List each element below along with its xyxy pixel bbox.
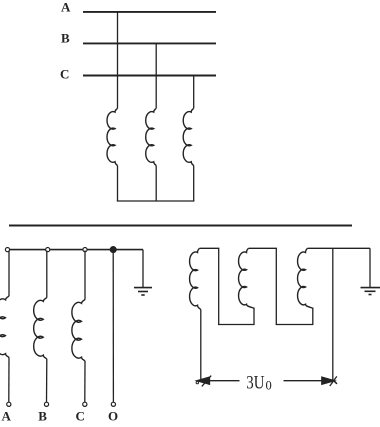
- svg-text:3U: 3U: [246, 373, 264, 394]
- wire ground drop: [142, 250, 144, 287]
- wire top link winding 3 to ground branch: [308, 247, 371, 249]
- terminal A output (open circle): [7, 402, 11, 406]
- wire phase a secondary bottom lead: [8, 358, 10, 403]
- wire top link winding 1 to first down-leg: [200, 248, 219, 324]
- wire winding 2 bottom lead: [155, 166, 157, 201]
- secondary winding phase a: [0, 296, 9, 358]
- open-delta winding 2: [239, 248, 254, 308]
- wire secondary star bus: [7, 249, 143, 251]
- arrowhead right: [322, 376, 337, 386]
- open-delta winding 1: [190, 248, 201, 309]
- wire phase A bus: [83, 11, 216, 13]
- wire measurement left drop: [200, 310, 202, 382]
- svg-text:B: B: [61, 30, 70, 45]
- wire phase b secondary bottom lead: [46, 359, 48, 402]
- terminal a (open circle): [5, 248, 9, 252]
- dimension arrow left segment: [204, 380, 240, 382]
- terminal C output (open circle): [83, 402, 87, 406]
- terminal B output (open circle): [44, 402, 48, 406]
- terminal O output (open circle): [111, 402, 115, 406]
- svg-text:0: 0: [266, 378, 272, 392]
- wire phase a secondary top lead: [8, 251, 10, 297]
- svg-text:A: A: [2, 409, 12, 424]
- wire phase C bus: [83, 75, 216, 77]
- wire tap from phase C to primary winding 3: [193, 76, 195, 109]
- wire phase c secondary top lead: [84, 251, 86, 300]
- wire bottom link to winding 3: [276, 308, 313, 325]
- ground symbol (right): [361, 288, 380, 295]
- section divider line: [9, 225, 352, 227]
- secondary winding phase c: [72, 300, 85, 362]
- terminal c (open circle): [83, 248, 87, 252]
- open-delta winding 3: [298, 248, 313, 308]
- wire winding 1 bottom lead: [117, 166, 119, 201]
- ground symbol (left): [134, 288, 152, 295]
- secondary winding phase b: [34, 298, 47, 360]
- wire phase c secondary bottom lead: [84, 361, 86, 402]
- wire winding 3 bottom lead: [193, 166, 195, 201]
- wire phase b secondary top lead: [46, 251, 48, 298]
- svg-text:C: C: [76, 409, 85, 424]
- wire phase B bus: [83, 42, 216, 44]
- svg-text:C: C: [60, 67, 69, 82]
- svg-text:O: O: [108, 409, 118, 424]
- wire top link winding 2 to second down-leg: [249, 248, 277, 324]
- primary winding phase A: [107, 108, 117, 165]
- wire tap from phase A to primary winding 1: [117, 12, 119, 108]
- dimension arrow right segment: [284, 380, 330, 382]
- wire tap from phase B to primary winding 2: [155, 43, 157, 108]
- primary winding phase B: [146, 108, 156, 165]
- wire measurement right drop: [332, 248, 334, 381]
- wire neutral link joining winding bottoms: [117, 200, 195, 202]
- wire neutral O conductor: [112, 250, 114, 403]
- terminal b (open circle): [46, 248, 50, 252]
- wire ground stem (right): [369, 248, 371, 287]
- arrowhead left: [196, 376, 211, 387]
- svg-text:A: A: [61, 0, 71, 15]
- primary winding phase C: [183, 108, 193, 165]
- wire bottom link to winding 2: [218, 308, 254, 325]
- junction O (filled dot): [110, 247, 116, 253]
- svg-text:B: B: [38, 409, 47, 424]
